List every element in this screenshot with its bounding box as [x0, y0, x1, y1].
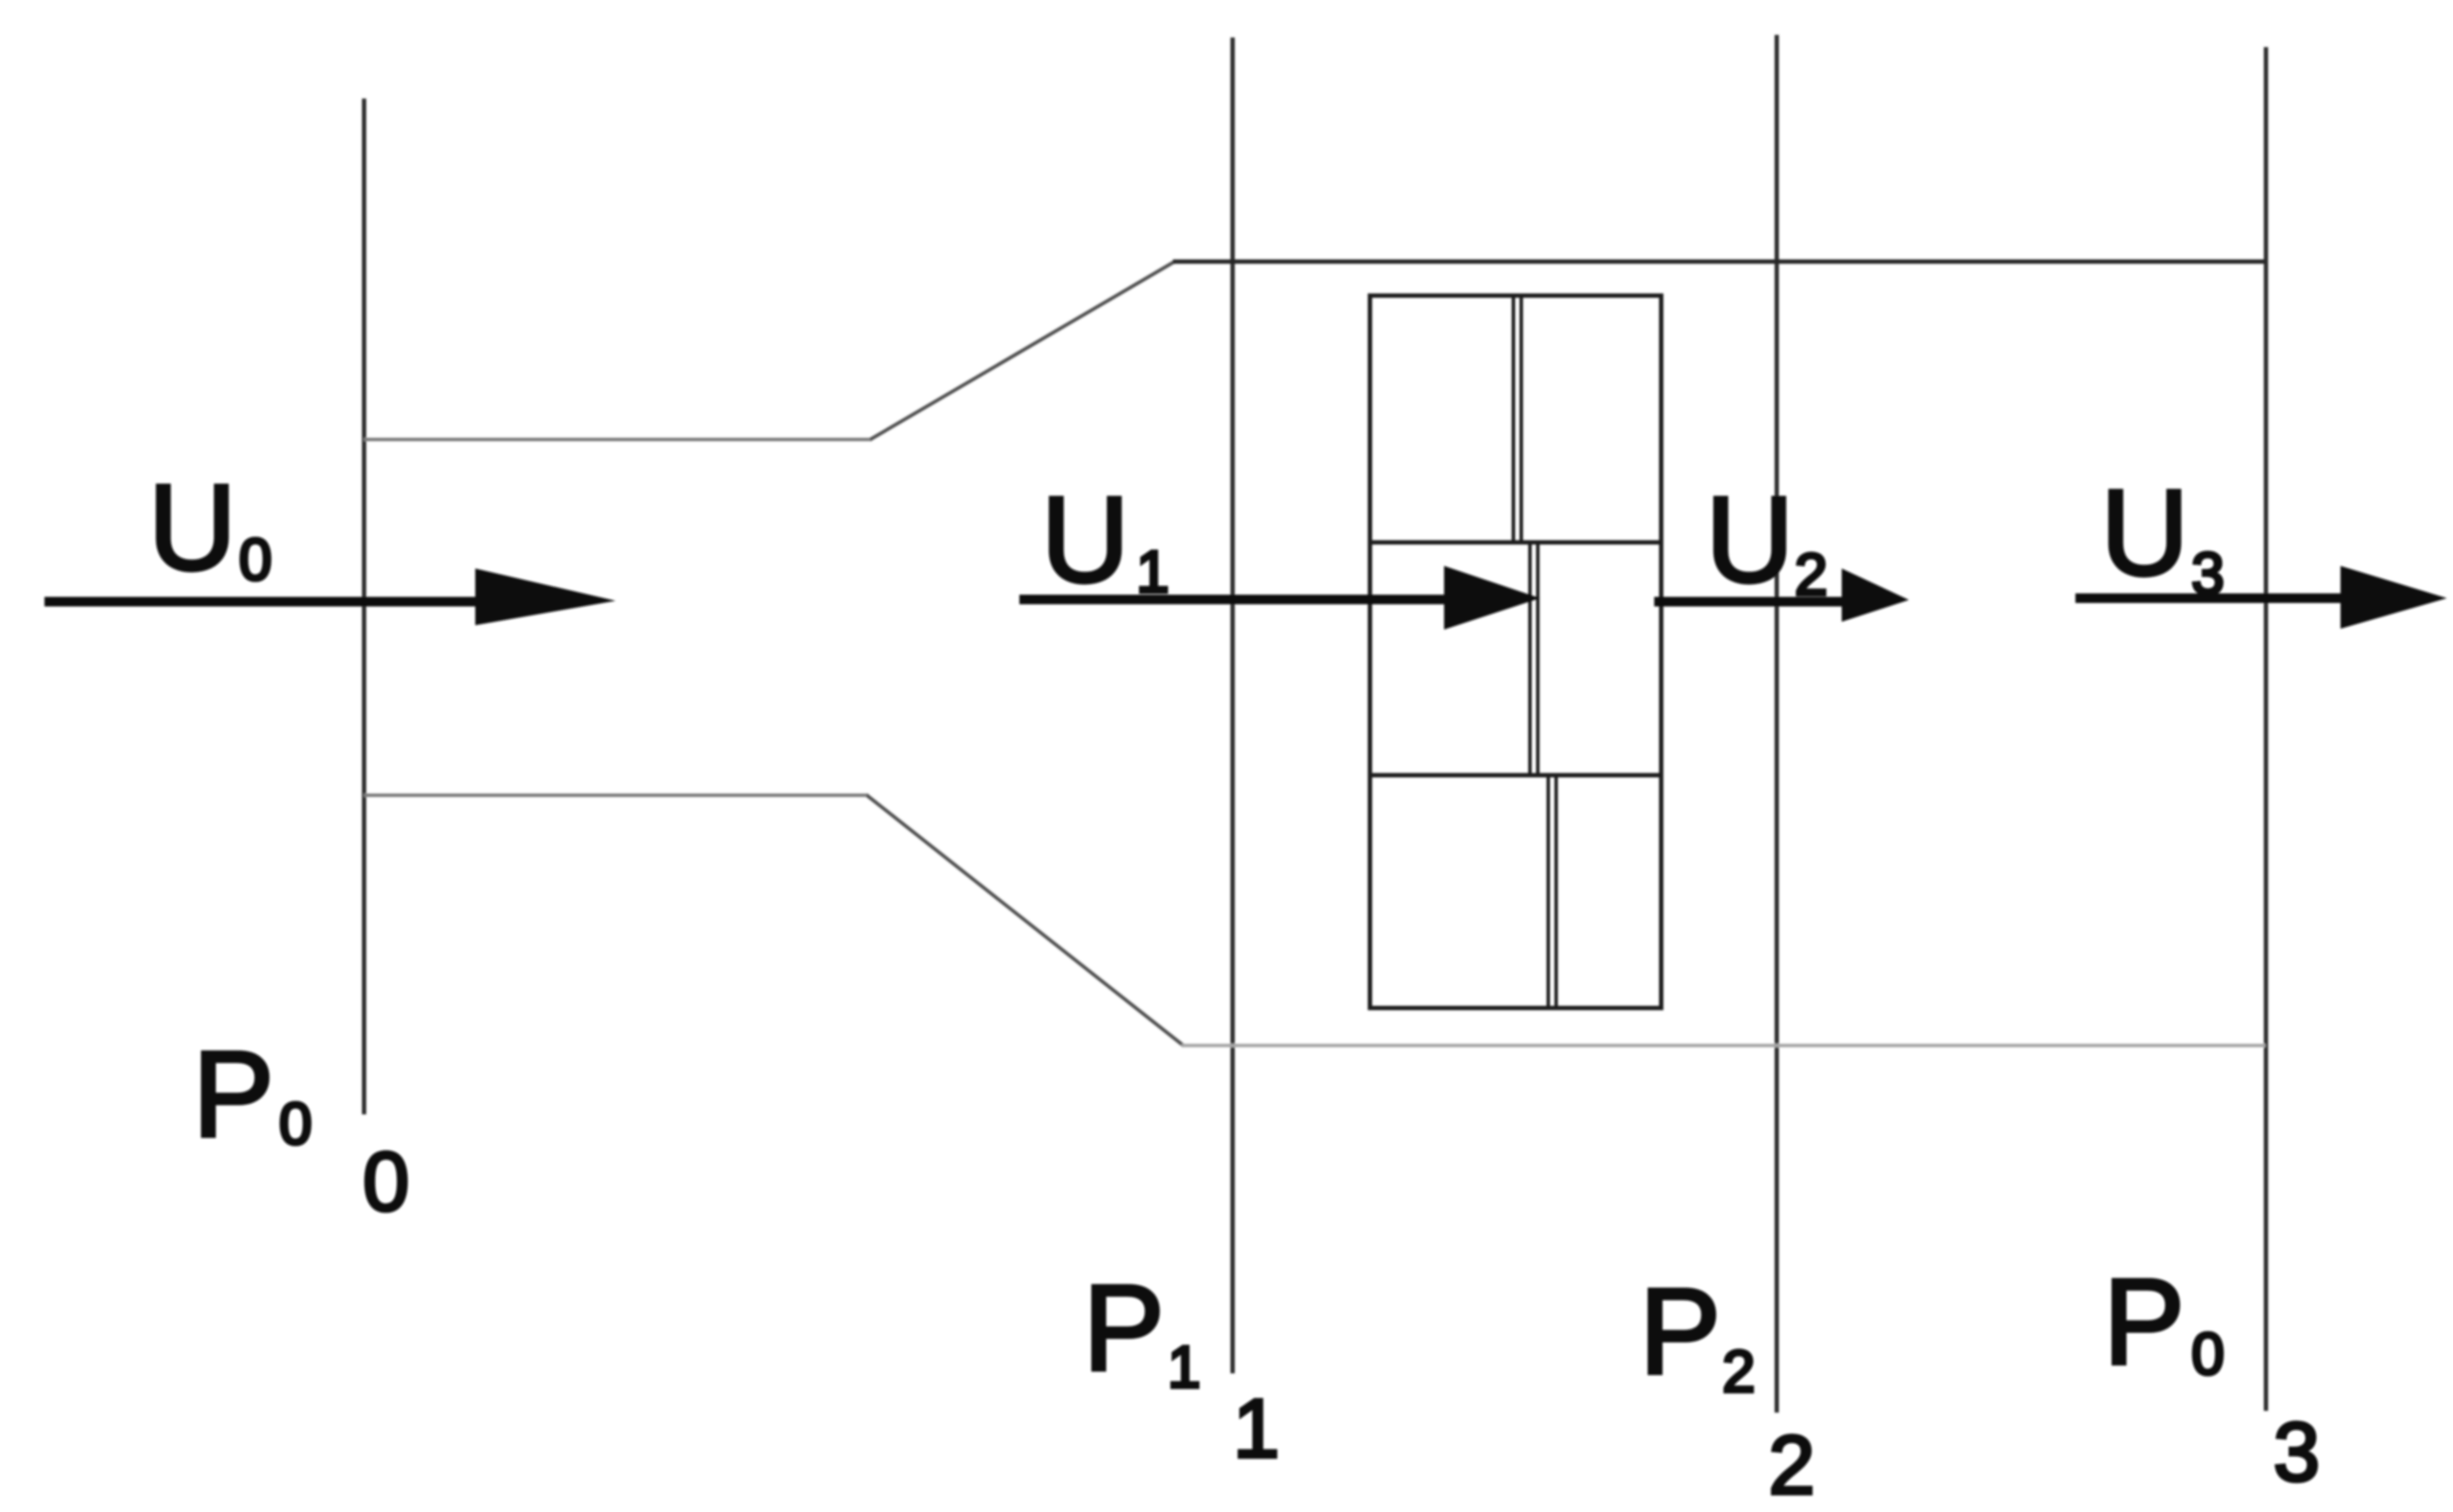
svg-text:1: 1: [1168, 1334, 1201, 1400]
svg-text:3: 3: [2273, 1406, 2320, 1499]
svg-text:P: P: [193, 1025, 274, 1162]
svg-text:P: P: [2103, 1253, 2184, 1390]
svg-text:U: U: [2101, 464, 2189, 601]
svg-text:P: P: [1083, 1259, 1164, 1396]
svg-text:1: 1: [1136, 539, 1169, 605]
svg-text:0: 0: [2191, 1321, 2225, 1387]
svg-text:U: U: [1706, 471, 1794, 608]
svg-text:0: 0: [279, 1091, 312, 1157]
svg-text:0: 0: [239, 527, 272, 593]
svg-text:3: 3: [2191, 541, 2225, 607]
svg-text:2: 2: [1768, 1419, 1815, 1512]
svg-text:0: 0: [363, 1135, 409, 1229]
svg-text:2: 2: [1795, 541, 1828, 608]
svg-text:U: U: [1041, 471, 1129, 608]
svg-text:P: P: [1639, 1263, 1721, 1400]
svg-text:1: 1: [1233, 1382, 1279, 1475]
svg-text:U: U: [148, 459, 236, 596]
svg-text:2: 2: [1722, 1338, 1755, 1405]
